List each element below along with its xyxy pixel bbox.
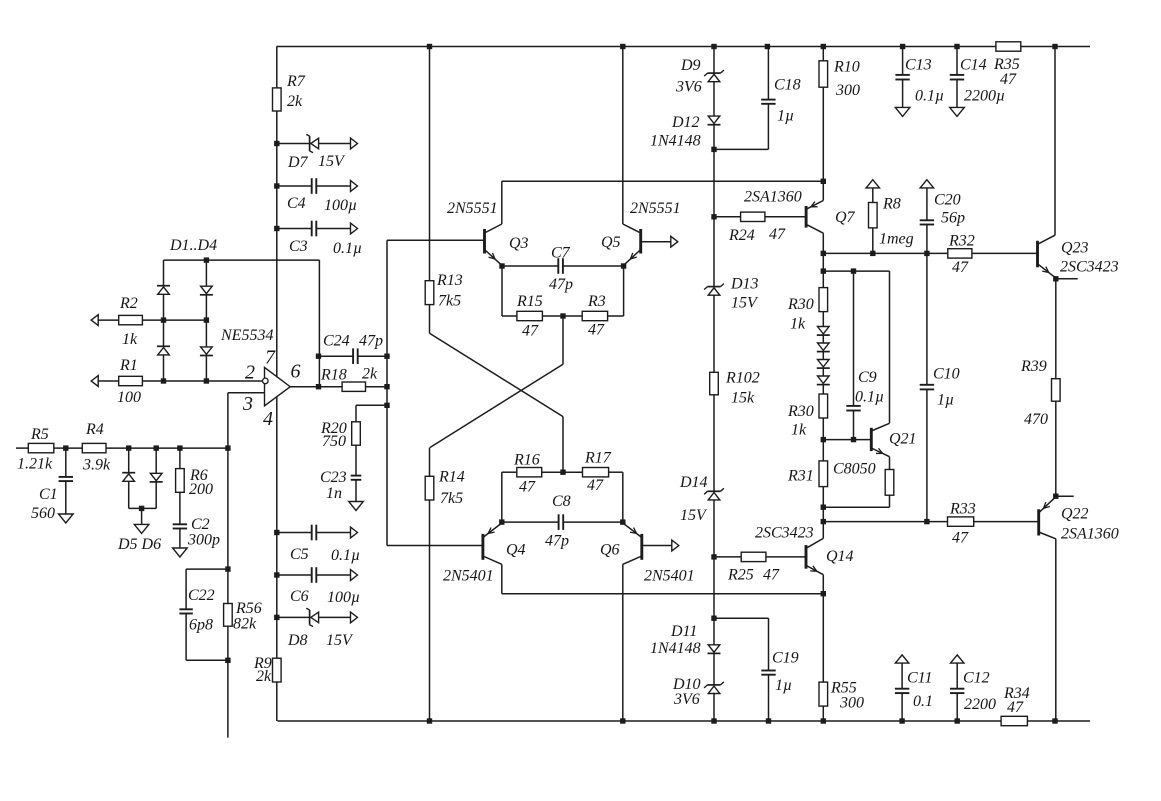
junction bridge right mid — [204, 317, 209, 322]
diode D7 zener 15V — [277, 134, 351, 171]
junction R15 R3 — [560, 313, 565, 318]
svg-text:C14: C14 — [960, 57, 987, 74]
junction Q21 emitter return — [821, 505, 826, 510]
svg-text:C8050: C8050 — [833, 461, 876, 478]
svg-text:R16: R16 — [513, 452, 540, 469]
port arrow C5 — [351, 527, 358, 538]
capacitor C12 — [950, 663, 996, 721]
wire collector line y181 — [502, 180, 824, 182]
port arrow C4 — [351, 181, 358, 192]
junction output node — [316, 384, 321, 389]
svg-text:C8: C8 — [552, 493, 571, 510]
resistor R7 — [273, 73, 306, 111]
wire C18 branch — [714, 104, 768, 150]
diode D4 — [200, 347, 213, 381]
svg-text:15k: 15k — [731, 390, 755, 407]
junction bridge left bottom — [161, 378, 166, 383]
svg-text:100µ: 100µ — [327, 589, 360, 606]
wire R16 to junction — [542, 471, 583, 473]
svg-text:1n: 1n — [326, 485, 342, 502]
svg-text:47: 47 — [1007, 699, 1024, 716]
svg-text:7k5: 7k5 — [438, 293, 461, 310]
port arrow C3 — [351, 223, 358, 234]
diode string D b — [817, 343, 830, 352]
resistor Q21 emitter — [823, 457, 894, 508]
wire Q23 emitter stub — [1056, 278, 1078, 280]
transistor Q21 C8050 — [833, 423, 917, 477]
svg-text:R5: R5 — [30, 426, 49, 443]
wire D5-D6 join — [129, 507, 157, 509]
junction D5 node — [126, 445, 131, 450]
junction Q22 emitter — [1053, 494, 1058, 499]
svg-text:100µ: 100µ — [324, 197, 357, 214]
junction C24 right — [384, 354, 389, 359]
junction Q4 emitter / C8 left — [499, 519, 504, 524]
wire opamp pin4 down — [276, 396, 278, 532]
port arrow input R1 — [91, 376, 98, 387]
wire R30 to diode string — [822, 312, 824, 327]
wire output to R18 — [319, 386, 343, 388]
wire diode string to R30 lower — [822, 335, 824, 394]
svg-text:D12: D12 — [671, 114, 700, 131]
junction Q3 emitter / C7 left — [499, 263, 504, 268]
svg-text:1meg: 1meg — [879, 231, 914, 248]
diode D2 — [200, 286, 213, 320]
junction on top rail — [765, 44, 770, 49]
ground below C14 — [950, 107, 965, 116]
svg-text:47p: 47p — [549, 276, 573, 293]
capacitor C20 — [920, 188, 965, 254]
junction on top rail — [427, 44, 432, 49]
svg-text:15V: 15V — [326, 632, 354, 649]
svg-text:56p: 56p — [941, 210, 965, 227]
wire R31 to Q14 collector — [822, 487, 824, 539]
svg-text:470: 470 — [1024, 411, 1048, 428]
svg-text:C20: C20 — [934, 192, 961, 209]
wire R33 line — [823, 521, 947, 523]
capacitor C11 — [895, 663, 933, 721]
junction VAS node y271 — [821, 268, 826, 273]
resistor R24 — [728, 212, 786, 244]
svg-text:15V: 15V — [731, 295, 759, 312]
svg-text:C10: C10 — [933, 366, 960, 383]
wire Q14 emitter down — [822, 575, 824, 682]
supply arrow C20 — [920, 180, 933, 188]
capacitor C6 — [277, 567, 360, 606]
svg-text:R8: R8 — [882, 196, 901, 213]
junction on top rail — [821, 44, 826, 49]
resistor R16 — [513, 452, 542, 496]
junction C8 right / Q6 emitter — [620, 519, 625, 524]
capacitor C9 — [846, 271, 884, 440]
svg-text:R30: R30 — [787, 296, 814, 313]
svg-text:2: 2 — [245, 362, 255, 384]
junction R33 node — [821, 519, 826, 524]
junction D6 node — [154, 445, 159, 450]
svg-text:C19: C19 — [772, 650, 799, 667]
port arrow D8 — [351, 612, 358, 623]
resistor R2 — [119, 295, 143, 348]
resistor R10 — [819, 47, 860, 100]
svg-text:47p: 47p — [545, 533, 569, 550]
resistor R56 — [224, 600, 262, 633]
junction D11 C19 — [711, 616, 716, 621]
svg-text:47p: 47p — [359, 333, 383, 350]
svg-text:R56: R56 — [235, 600, 262, 617]
wire R13 to diagonal — [429, 305, 431, 334]
junction C24 left — [316, 354, 321, 359]
svg-text:2k: 2k — [287, 93, 303, 110]
resistor R102 — [710, 370, 760, 407]
wire Q21 base line — [823, 439, 871, 441]
resistor R1 — [117, 357, 142, 406]
wire R1 to opamp pin2 — [142, 380, 262, 382]
wire Q22 collector to rail — [1055, 539, 1057, 721]
svg-text:1µ: 1µ — [937, 392, 954, 409]
svg-text:560: 560 — [31, 505, 55, 522]
wire R24 node to D13 — [713, 217, 715, 287]
junction C7 right / Q5 emitter — [621, 263, 626, 268]
port arrow Q6 base — [672, 540, 679, 551]
resistor R34 — [1001, 685, 1030, 726]
wire C20 to C10 — [926, 253, 928, 384]
svg-text:R102: R102 — [725, 370, 760, 387]
wire bridge right upper — [205, 260, 207, 286]
junction on bottom rail — [1052, 718, 1057, 723]
junction C4 node — [274, 183, 279, 188]
wire bridge left lower — [163, 320, 165, 346]
svg-text:D13: D13 — [730, 276, 759, 293]
svg-text:2k: 2k — [362, 366, 378, 383]
resistor R14 — [425, 469, 465, 508]
ground below C2 — [173, 548, 188, 557]
svg-text:R4: R4 — [85, 421, 104, 438]
junction bridge right bottom — [204, 378, 209, 383]
svg-text:750: 750 — [322, 433, 346, 450]
wire bottom V- rail right of R34 — [1027, 720, 1090, 722]
svg-text:D8: D8 — [287, 632, 308, 649]
capacitor C10 — [920, 366, 960, 522]
svg-text:1.21k: 1.21k — [17, 456, 53, 473]
resistor R4 — [82, 421, 111, 474]
svg-text:2N5551: 2N5551 — [447, 200, 498, 217]
capacitor C19 — [761, 650, 798, 722]
svg-text:D1..D4: D1..D4 — [169, 237, 217, 254]
svg-text:0.1µ: 0.1µ — [333, 240, 362, 257]
wire C5 to C6 — [276, 533, 278, 576]
wire input column down — [227, 448, 229, 737]
pin number 2 — [245, 362, 255, 384]
svg-text:0.1µ: 0.1µ — [915, 88, 944, 105]
svg-text:R25: R25 — [727, 567, 754, 584]
wire to R24 — [714, 216, 741, 218]
wire to R16 — [502, 471, 517, 473]
capacitor C4 — [277, 178, 357, 214]
wire R1 input — [98, 380, 119, 382]
svg-text:1N4148: 1N4148 — [650, 133, 701, 150]
wire R15 to junction — [542, 315, 582, 317]
wire input line y448 — [16, 447, 28, 449]
svg-text:Q14: Q14 — [826, 548, 854, 565]
wire from R15R3 node down — [562, 316, 564, 364]
diode D12 1N4148 — [650, 114, 721, 150]
svg-text:47: 47 — [769, 226, 786, 243]
junction on top rail — [900, 44, 905, 49]
svg-text:Q22: Q22 — [1061, 506, 1089, 523]
svg-text:1µ: 1µ — [775, 677, 792, 694]
junction D8 node — [274, 615, 279, 620]
junction C5 node — [274, 530, 279, 535]
svg-text:300: 300 — [835, 82, 860, 99]
transistor Q23 2SC3423 — [1038, 235, 1119, 278]
svg-text:1k: 1k — [790, 316, 806, 333]
junction on bottom rail — [821, 718, 826, 723]
resistor R30 upper — [787, 288, 828, 333]
wire R5 to R4 — [54, 447, 83, 449]
diode string D c — [817, 360, 830, 369]
junction on bottom rail — [955, 718, 960, 723]
svg-text:R7: R7 — [286, 73, 306, 90]
junction C20 bottom — [924, 251, 929, 256]
wire collector line y594 — [502, 593, 824, 595]
wire V+ to Q5 collector — [623, 47, 641, 234]
pin number 3 — [242, 393, 253, 415]
svg-text:0.1µ: 0.1µ — [855, 389, 884, 406]
svg-text:Q23: Q23 — [1061, 240, 1089, 257]
wire R7 to opamp pin7 — [276, 111, 278, 377]
junction on top rail — [711, 44, 716, 49]
junction on top rail — [954, 44, 959, 49]
wire bridge right lower — [205, 320, 207, 347]
supply arrow C11 — [895, 655, 908, 663]
junction on top rail — [1052, 44, 1057, 49]
wire C9 line — [823, 270, 889, 272]
svg-text:D5 D6: D5 D6 — [117, 536, 161, 553]
svg-text:C12: C12 — [963, 670, 990, 687]
transistor Q5 2N5551 — [601, 200, 681, 265]
svg-text:C18: C18 — [774, 77, 801, 94]
svg-text:0.1: 0.1 — [913, 693, 933, 710]
capacitor C23 — [320, 445, 361, 502]
svg-text:Q6: Q6 — [600, 542, 620, 559]
svg-text:R31: R31 — [787, 468, 814, 485]
svg-text:2SA1360: 2SA1360 — [744, 189, 802, 206]
svg-text:R3: R3 — [587, 293, 606, 310]
wire to gnd — [141, 508, 143, 524]
svg-text:2N5551: 2N5551 — [630, 200, 681, 217]
wire R102 to D14 — [713, 395, 715, 492]
wire bottom V- rail left of R34 — [278, 720, 1002, 722]
port arrow input R2 — [91, 315, 98, 326]
junction Q23 emitter — [1053, 276, 1058, 281]
resistor R25 — [727, 552, 780, 583]
diode D8 zener 15V — [277, 608, 354, 649]
svg-text:C5: C5 — [290, 546, 309, 563]
svg-text:C7: C7 — [551, 245, 571, 262]
op-amp pin 2 bubble — [263, 378, 269, 384]
junction C10 bottom — [924, 519, 929, 524]
svg-text:300: 300 — [839, 695, 864, 712]
svg-text:R33: R33 — [949, 501, 976, 518]
svg-text:Q3: Q3 — [509, 235, 529, 252]
resistor R55 — [819, 680, 864, 722]
wire R18 right — [366, 386, 388, 388]
ground below C1 — [59, 514, 74, 523]
capacitor C22 — [179, 587, 214, 660]
svg-text:1µ: 1µ — [777, 108, 794, 125]
svg-text:15V: 15V — [680, 507, 708, 524]
junction input column — [225, 445, 230, 450]
wire C22 top branch — [186, 569, 228, 609]
svg-text:D14: D14 — [679, 474, 708, 491]
resistor R33 — [948, 501, 976, 547]
junction R6 node — [177, 445, 182, 450]
svg-text:R13: R13 — [436, 272, 463, 289]
wire V+ down to R7 — [276, 47, 278, 88]
svg-text:47: 47 — [952, 530, 969, 547]
resistor R39 — [1020, 279, 1060, 496]
port arrow Q5 base — [671, 236, 678, 247]
svg-text:47: 47 — [587, 477, 604, 494]
wire Q4 base — [387, 545, 483, 547]
wire D12 to R24 node — [713, 149, 715, 216]
svg-text:D11: D11 — [670, 623, 697, 640]
svg-text:1k: 1k — [122, 331, 138, 348]
resistor R8 — [869, 188, 914, 254]
wire bridge left upper — [163, 260, 165, 286]
junction on bottom rail — [766, 718, 771, 723]
svg-text:3.9k: 3.9k — [82, 457, 111, 474]
wire diagonal B vertical — [429, 448, 431, 477]
svg-text:1k: 1k — [791, 422, 807, 439]
pin number 4 — [263, 408, 273, 430]
junction R18 right — [384, 384, 389, 389]
wire bridge top to output node — [318, 260, 320, 387]
junction D5D6 gnd node — [139, 506, 144, 511]
junction D12 C18 — [711, 147, 716, 152]
svg-text:0.1µ: 0.1µ — [331, 547, 360, 564]
svg-text:200: 200 — [189, 481, 213, 498]
svg-text:3: 3 — [242, 393, 253, 415]
wire R33 to Q22 base — [974, 521, 1039, 523]
capacitor C8 — [502, 493, 623, 550]
wire R17 right loop — [609, 472, 623, 522]
junction on bottom rail — [427, 718, 432, 723]
svg-text:R10: R10 — [833, 59, 860, 76]
svg-text:C9: C9 — [858, 369, 877, 386]
port arrow C6 — [351, 570, 358, 581]
wire V+ to Q23 collector — [1054, 47, 1056, 236]
wire R30 lower to Q21 base node — [822, 418, 824, 461]
resistor R5 — [17, 426, 54, 473]
wire R20 tap — [356, 404, 387, 406]
wire C19 branch — [714, 618, 769, 671]
wire op-amp output — [290, 386, 318, 388]
svg-text:R17: R17 — [584, 450, 612, 467]
ground below C13 — [895, 107, 910, 116]
svg-text:15V: 15V — [318, 153, 346, 170]
wire Q22 emitter stub — [1056, 495, 1074, 497]
transistor Q4 2N5401 — [443, 523, 526, 594]
junction C22 top — [225, 566, 230, 571]
svg-text:C23: C23 — [320, 469, 347, 486]
diode D9 zener 3V6 — [675, 57, 724, 116]
svg-text:C3: C3 — [289, 238, 308, 255]
resistor R6 — [176, 448, 213, 498]
junction C22 bottom — [225, 658, 230, 663]
junction bridge top right — [204, 257, 209, 262]
junction on bottom rail — [620, 718, 625, 723]
junction D7 node — [274, 141, 279, 146]
svg-text:C1: C1 — [39, 486, 58, 503]
capacitor C2 — [173, 492, 220, 548]
svg-text:C2: C2 — [191, 516, 210, 533]
svg-text:C24: C24 — [323, 333, 350, 350]
svg-text:47: 47 — [952, 259, 969, 276]
diode D1 — [157, 286, 170, 320]
ground below C23 — [349, 502, 364, 511]
svg-text:R32: R32 — [948, 233, 975, 250]
svg-text:C22: C22 — [188, 587, 215, 604]
wire diagonal A — [430, 333, 564, 416]
svg-text:2k: 2k — [256, 668, 272, 685]
transistor Q6 2N5401 — [600, 523, 695, 584]
svg-text:2SA1360: 2SA1360 — [1061, 526, 1119, 543]
svg-text:2SC3423: 2SC3423 — [755, 525, 814, 542]
svg-text:7k5: 7k5 — [440, 490, 463, 507]
wire Q6 collector to bottom rail — [622, 564, 624, 721]
junction R20 tap — [384, 403, 389, 408]
resistor R18 — [320, 366, 378, 392]
junction C9 bottom — [851, 437, 856, 442]
svg-text:2200µ: 2200µ — [964, 88, 1005, 105]
wire C7 left loop — [501, 266, 503, 316]
svg-text:R24: R24 — [728, 227, 755, 244]
resistor R13 — [425, 47, 463, 310]
wire R25 to Q14 base — [766, 556, 806, 558]
svg-text:NE5534: NE5534 — [220, 327, 273, 344]
svg-text:3V6: 3V6 — [675, 79, 702, 96]
svg-text:300p: 300p — [187, 532, 220, 549]
diode D6 — [150, 448, 163, 508]
diode D5 — [122, 448, 135, 508]
svg-text:C11: C11 — [907, 670, 932, 687]
wire diagonal B — [430, 364, 563, 447]
svg-text:R14: R14 — [438, 469, 465, 486]
junction Q14 emitter line — [821, 591, 826, 596]
supply arrow R8 — [866, 180, 879, 188]
wire R2 to bridge — [142, 319, 206, 321]
junction on top rail — [620, 44, 625, 49]
svg-text:R18: R18 — [320, 367, 347, 384]
junction collector line right — [821, 179, 826, 184]
junction C3 node — [274, 226, 279, 231]
junction bridge left mid — [161, 317, 166, 322]
wire R10 down to Q7 emitter — [822, 87, 824, 200]
svg-text:47: 47 — [1000, 71, 1017, 88]
resistor R20 — [320, 405, 360, 450]
ground below D5 D6 — [117, 524, 161, 553]
svg-text:C4: C4 — [287, 195, 306, 212]
pin number 7 — [265, 347, 276, 369]
svg-text:47: 47 — [519, 479, 536, 496]
diode D14 zener 15V — [679, 474, 724, 557]
svg-text:Q21: Q21 — [889, 431, 917, 448]
junction VAS node y253 — [821, 251, 826, 256]
junction R25 node — [711, 554, 716, 559]
svg-text:Q4: Q4 — [506, 542, 526, 559]
pin number 6 — [291, 361, 301, 383]
